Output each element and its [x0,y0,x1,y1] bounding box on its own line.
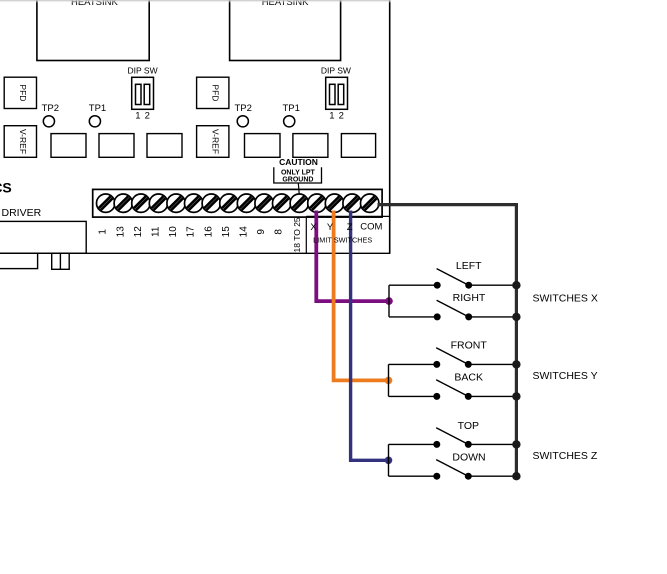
terminal COM [361,194,379,212]
svg-text:SWITCHES Y: SWITCHES Y [533,370,598,382]
switch DOWN [389,452,517,480]
terminal 14 [237,194,255,212]
terminal 1 [97,194,115,212]
svg-text:TP1: TP1 [282,103,299,114]
switch RIGHT [389,292,516,320]
node: navy junction [385,457,393,465]
terminal 15 [220,194,238,212]
connector pins [52,253,69,269]
svg-text:CS: CS [0,179,12,195]
module 2 V-REF pad [197,126,229,158]
wire X (purple) from terminal X to switches X [316,211,389,302]
svg-text:R DRIVER: R DRIVER [0,207,42,219]
wire: left rail Y [388,364,390,396]
node: rail junction LEFT [512,281,520,289]
svg-text:V-REF: V-REF [211,129,221,154]
module 2 pad A [245,134,281,158]
node: rail junction TOP [512,440,520,448]
terminal 8 [273,194,291,212]
svg-text:17: 17 [186,226,197,238]
module 1 pad A [51,134,86,158]
module 2 test point TP1 [282,103,299,127]
svg-text:X: X [310,222,317,233]
switches X group [389,260,598,320]
svg-text:BACK: BACK [454,371,483,383]
module 2 test point TP2 [234,103,251,127]
node: rail junction FRONT [512,360,520,368]
board right edge [389,0,391,253]
svg-text:15: 15 [221,226,232,238]
terminal strip TB1 [93,189,382,217]
node: rail junction BACK [512,392,520,400]
module 2 PFD pad [197,77,229,108]
terminal 18 TO 25 [290,194,308,212]
node: purple junction [385,297,393,305]
svg-text:COM: COM [360,222,382,233]
svg-text:LIMIT SWITCHES: LIMIT SWITCHES [313,236,372,245]
svg-text:12: 12 [133,226,144,238]
terminal 12 [132,194,150,212]
svg-text:1: 1 [98,229,109,235]
module 1 V-REF pad [4,126,36,158]
heatsink HS1 [37,0,149,61]
switch FRONT [389,339,517,368]
svg-text:SWITCHES Z: SWITCHES Z [533,450,598,462]
svg-text:V-REF: V-REF [18,129,28,154]
svg-text:RIGHT: RIGHT [453,292,486,304]
wire: left rail X [388,285,390,317]
svg-text:1: 1 [329,111,334,122]
board top edge (cropped) [0,0,391,3]
svg-text:CAUTION: CAUTION [279,157,318,167]
wire Z (navy) from terminal Z to switches Z [351,211,389,461]
switch TOP [389,420,517,448]
svg-text:9: 9 [256,229,267,235]
terminal 13 [114,194,132,212]
svg-text:TP2: TP2 [234,103,251,114]
terminal 9 [255,194,273,212]
svg-text:2: 2 [339,111,344,122]
caution note [274,157,322,194]
svg-text:13: 13 [115,226,126,238]
svg-text:16: 16 [203,226,214,238]
module 1 pad B [99,134,134,158]
svg-text:PFD: PFD [18,84,28,101]
node: rail junction RIGHT [512,313,520,321]
terminal 17 [185,194,203,212]
node: orange junction [385,377,393,385]
svg-text:10: 10 [168,226,179,238]
terminal Z [343,194,361,212]
terminal 10 [167,194,185,212]
svg-text:TOP: TOP [458,420,479,432]
svg-text:14: 14 [239,226,250,238]
node: rail junction DOWN [512,472,520,480]
switches Y group [389,339,598,400]
svg-text:DOWN: DOWN [452,452,485,464]
switch BACK [389,371,517,400]
svg-text:Y: Y [327,222,334,233]
switch LEFT [389,260,516,289]
svg-text:TP1: TP1 [89,103,106,114]
wire COM (dark) from COM terminal to switch common rail [378,205,517,477]
svg-text:FRONT: FRONT [451,339,488,351]
module 1 pad C [147,134,182,158]
module 2 pad C [341,134,375,158]
svg-text:11: 11 [151,226,162,237]
svg-text:TP2: TP2 [42,103,59,114]
svg-text:2: 2 [145,111,150,122]
svg-text:LEFT: LEFT [456,260,482,272]
svg-text:PFD: PFD [211,84,221,101]
limit switches label box [306,215,389,217]
svg-text:Z: Z [347,222,353,233]
svg-text:ONLY LPT: ONLY LPT [281,169,316,176]
svg-text:1: 1 [135,111,140,122]
svg-text:SWITCHES X: SWITCHES X [533,293,598,305]
module 2 pad B [293,134,328,158]
module 1 test point TP2 [42,103,59,127]
board bottom edge [0,252,390,254]
terminal 16 [202,194,220,212]
connector block bottom-left [0,221,86,253]
heatsink HS2 [230,0,341,61]
svg-text:DIP SW: DIP SW [321,66,351,76]
svg-text:18 TO 25: 18 TO 25 [292,217,302,252]
module 1 PFD pad [4,77,36,108]
module 1 test point TP1 [89,103,106,127]
wire Y (orange) from terminal Y to switches Y [334,211,389,381]
connector sub-block [0,253,38,268]
module 1 DIP SW [128,66,158,122]
svg-text:DIP SW: DIP SW [128,66,158,76]
wire: left rail Z [388,444,390,476]
svg-text:8: 8 [274,229,285,235]
switches Z group [389,420,598,480]
terminal X [308,194,326,212]
svg-text:GROUND: GROUND [282,176,313,183]
terminal 11 [149,194,167,212]
terminal Y [325,194,343,212]
module 2 DIP SW [321,66,351,122]
